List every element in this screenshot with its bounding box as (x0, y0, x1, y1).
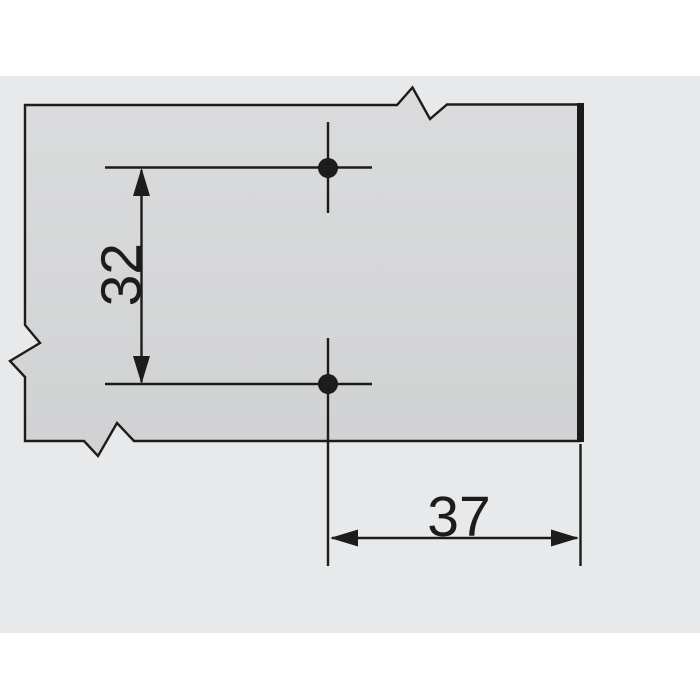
extension line lower (hole 2 horizontal crosshair) (105, 383, 372, 385)
thick right edge (577, 103, 584, 442)
arrow left (330, 530, 358, 547)
hole 2 (318, 374, 338, 394)
background band (0, 76, 700, 633)
panel (cabinet side) with break lines (10, 88, 580, 457)
extension line upper (hole 1 horizontal crosshair) (105, 166, 372, 168)
dimension line 37 (horizontal) (332, 537, 577, 539)
arrow up (133, 168, 150, 196)
extension line right edge (below panel) (579, 444, 581, 566)
dimension line 32 (vertical) (140, 170, 142, 382)
hole 1 vertical crosshair (327, 122, 329, 213)
hole 1 (318, 158, 338, 178)
svg-text:32: 32 (90, 243, 154, 306)
hole 2 vertical crosshair / extension (327, 338, 329, 566)
arrow right (551, 530, 579, 547)
svg-text:37: 37 (427, 485, 490, 549)
arrow down (133, 356, 150, 384)
